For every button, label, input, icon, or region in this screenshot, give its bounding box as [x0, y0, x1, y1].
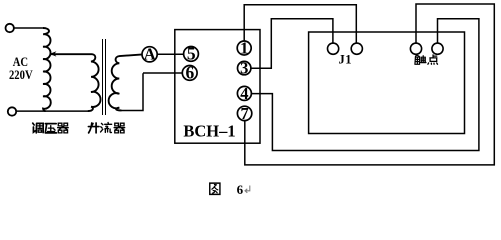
- svg-text:5: 5: [187, 44, 196, 64]
- svg-text:4: 4: [240, 84, 248, 103]
- svg-text:A: A: [144, 45, 156, 64]
- svg-text:J1: J1: [338, 52, 352, 66]
- svg-text:3: 3: [240, 59, 248, 78]
- svg-text:6: 6: [237, 182, 244, 197]
- svg-text:220V: 220V: [9, 67, 33, 82]
- svg-text:6: 6: [186, 63, 195, 83]
- svg-text:1: 1: [240, 38, 248, 57]
- svg-text:7: 7: [240, 104, 248, 123]
- svg-text:BCH–1: BCH–1: [183, 122, 235, 141]
